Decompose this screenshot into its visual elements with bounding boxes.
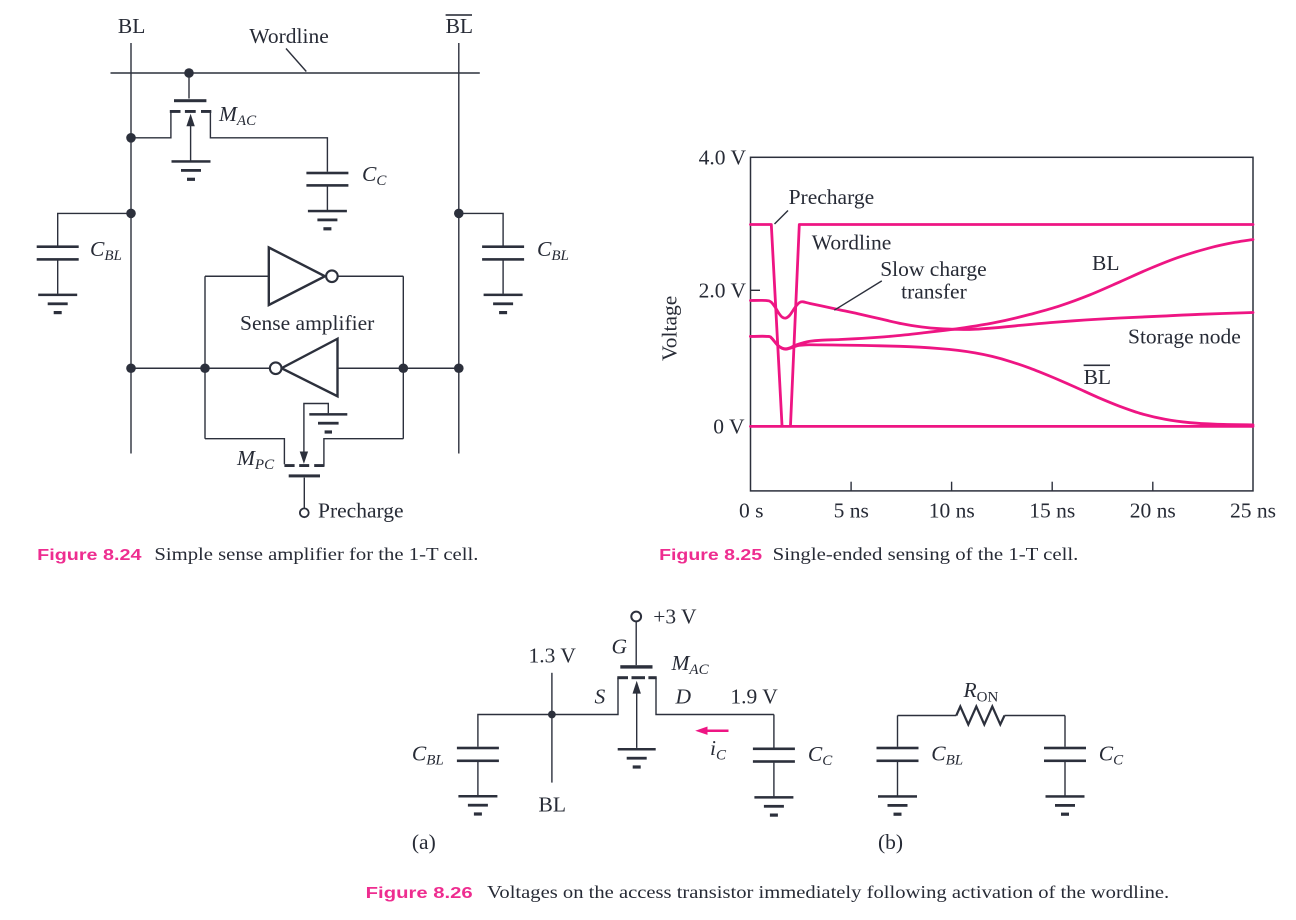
wire drain lead D — [656, 678, 774, 715]
wire bitline BLbar vertical — [458, 43, 460, 454]
wire C_BL lower lead — [897, 762, 899, 796]
curve BLbar — [751, 336, 1254, 425]
svg-text:BL: BL — [1084, 365, 1111, 389]
wire C_BL right lower lead — [502, 261, 504, 294]
svg-text:25 ns: 25 ns — [1230, 499, 1276, 523]
svg-text:Figure 8.26: Figure 8.26 — [366, 885, 473, 902]
svg-text:CC: CC — [362, 162, 387, 189]
svg-text:Slow charge: Slow charge — [880, 257, 986, 281]
wire BL vertical 1.3V — [551, 673, 553, 783]
svg-text:Figure 8.25: Figure 8.25 — [659, 547, 762, 564]
transistor M_AC channel (dashed) — [170, 110, 212, 113]
junction right loop — [399, 363, 409, 373]
wire sense-amp main line right — [338, 367, 459, 369]
wire to C_BL — [478, 715, 552, 747]
terminal Precharge (open circle) — [300, 508, 309, 517]
svg-text:transfer: transfer — [901, 280, 967, 304]
annotation BLbar — [1084, 365, 1111, 390]
svg-text:Precharge: Precharge — [789, 185, 875, 209]
svg-text:(a): (a) — [412, 830, 436, 854]
svg-text:G: G — [612, 635, 628, 659]
wire C_C lower lead — [773, 763, 775, 797]
transistor M_PC body arrow — [300, 404, 329, 464]
ground C_BL — [458, 795, 497, 816]
junction source-BL — [126, 133, 136, 143]
curve Storage node — [751, 300, 1254, 329]
wire right vertical — [1064, 716, 1066, 747]
op-amp inverter U1 (top, right-pointing) — [269, 248, 338, 306]
wire C_C lower lead — [326, 186, 328, 210]
svg-text:MAC: MAC — [671, 651, 710, 678]
wire to right C_BL — [459, 213, 503, 245]
svg-text:10 ns: 10 ns — [929, 499, 975, 523]
capacitor C_BL left — [37, 245, 79, 260]
svg-text:CBL: CBL — [412, 742, 444, 769]
resistor R_ON zigzag — [956, 707, 1004, 725]
svg-text:D: D — [675, 685, 692, 709]
wire to C_C — [773, 715, 775, 748]
svg-text:S: S — [595, 685, 606, 709]
junction BL main — [126, 363, 136, 373]
svg-text:4.0 V: 4.0 V — [699, 146, 747, 170]
transistor M_AC gate bar — [620, 665, 652, 668]
wire wordline label pointer — [286, 49, 306, 72]
current arrow i_C (pink) — [695, 727, 728, 735]
ground substrate — [618, 748, 656, 769]
wire C_BL left lower lead — [57, 261, 59, 294]
annotation Slow charge transfer — [880, 257, 986, 304]
Figure 8.26a: access transistor circuit — [412, 605, 833, 855]
ground C_C — [308, 210, 347, 231]
svg-text:CBL: CBL — [90, 237, 122, 264]
svg-text:CC: CC — [1099, 742, 1124, 769]
wire loop bottom right — [324, 439, 403, 467]
svg-text:Wordline: Wordline — [249, 24, 328, 48]
svg-text:BL: BL — [539, 793, 566, 817]
wire M_AC source lead — [131, 112, 171, 138]
capacitor C_C — [753, 748, 795, 763]
junction BL node — [548, 711, 556, 719]
capacitor C_BL — [457, 747, 499, 762]
curve 0V baseline (precharge/wordline low) — [751, 425, 1254, 428]
ground C_C — [1046, 795, 1085, 816]
svg-text:+3 V: +3 V — [653, 605, 697, 629]
svg-text:5 ns: 5 ns — [834, 499, 869, 523]
wire gate lead — [635, 622, 637, 666]
curve BL — [751, 240, 1254, 349]
curve Precharge — [751, 225, 783, 426]
capacitor C_C — [306, 172, 348, 187]
wire wordline horizontal — [111, 72, 480, 74]
svg-text:iC: iC — [710, 736, 727, 764]
junction BLbar tap — [454, 209, 464, 219]
ground M_AC substrate — [172, 160, 211, 181]
chart plot box — [751, 157, 1254, 491]
ground C_BL — [878, 795, 917, 816]
wire source lead S — [552, 678, 618, 715]
svg-text:Simple sense amplifier for the: Simple sense amplifier for the 1-T cell. — [154, 544, 478, 564]
svg-text:Precharge: Precharge — [318, 499, 404, 523]
svg-text:CC: CC — [808, 742, 833, 769]
Figure 8.24: sense amplifier schematic — [37, 14, 569, 564]
transistor M_PC gate bar — [289, 474, 320, 477]
svg-text:Sense amplifier: Sense amplifier — [240, 311, 374, 335]
x ticks — [851, 482, 1153, 491]
wire M_PC gate lead — [303, 478, 305, 509]
svg-text:(b): (b) — [878, 830, 903, 854]
junction BLbar main — [454, 363, 464, 373]
svg-text:1.9 V: 1.9 V — [730, 685, 778, 709]
wire C_BL lower lead — [477, 762, 479, 795]
capacitor C_BL — [877, 747, 919, 762]
svg-text:2.0 V: 2.0 V — [699, 278, 747, 302]
node BLbar label — [446, 14, 473, 38]
ground M_PC substrate — [309, 413, 347, 434]
curve Wordline — [791, 225, 1254, 426]
transistor M_AC gate bar — [174, 99, 206, 102]
svg-text:BL: BL — [118, 14, 145, 38]
svg-text:0 s: 0 s — [739, 499, 764, 523]
capacitor C_BL right — [482, 245, 524, 260]
svg-text:Wordline: Wordline — [812, 231, 891, 255]
svg-text:1.3 V: 1.3 V — [529, 644, 577, 668]
svg-text:Voltage: Voltage — [658, 296, 682, 361]
transistor M_AC channel (dashed) — [617, 676, 656, 679]
transistor body arrow — [633, 681, 641, 748]
svg-text:BL: BL — [1092, 251, 1119, 275]
ground C_BL right — [484, 294, 523, 315]
wire left to resistor — [898, 715, 957, 717]
wire sense-amp main line left — [131, 367, 269, 369]
terminal +3V (open circle) — [631, 612, 641, 622]
wire gate lead M_AC — [188, 73, 190, 99]
y tick 2.0V — [751, 289, 761, 291]
ground C_C — [754, 796, 793, 817]
wire loop right vertical — [402, 276, 404, 438]
junction BL tap — [126, 209, 136, 219]
wire bitline BL vertical — [130, 43, 132, 454]
wire M_AC drain lead to C_C — [210, 112, 327, 172]
wire loop left vertical — [204, 276, 206, 438]
svg-text:Figure 8.24: Figure 8.24 — [37, 547, 142, 564]
wire left vertical — [897, 716, 899, 747]
transistor M_PC channel (dashed) — [284, 464, 324, 467]
Figure 8.26b: RC equivalent circuit — [877, 678, 1125, 854]
svg-text:CBL: CBL — [931, 742, 963, 769]
svg-text:Voltages on the access transis: Voltages on the access transistor immedi… — [487, 882, 1169, 902]
junction wordline-gate — [184, 68, 194, 78]
junction left loop — [200, 363, 210, 373]
wire to left C_BL — [58, 213, 131, 245]
svg-text:Single-ended sensing of the 1-: Single-ended sensing of the 1-T cell. — [773, 544, 1079, 564]
pointer Precharge — [775, 211, 789, 225]
wire loop top to inverter input — [205, 275, 269, 277]
transistor M_AC body arrow — [186, 114, 194, 161]
svg-text:CBL: CBL — [537, 237, 569, 264]
pointer Slow charge transfer — [834, 281, 882, 310]
svg-text:MPC: MPC — [236, 446, 275, 473]
Figure 8.25: single-ended sensing chart — [658, 146, 1277, 565]
svg-text:BL: BL — [446, 14, 473, 38]
capacitor C_C — [1044, 747, 1086, 762]
wire resistor to right — [1005, 715, 1066, 717]
svg-text:MAC: MAC — [218, 102, 257, 129]
svg-text:20 ns: 20 ns — [1130, 499, 1176, 523]
wire inverter U1 output — [339, 275, 404, 277]
op-amp inverter U2 (bottom, left-pointing) — [270, 339, 338, 397]
svg-text:Storage node: Storage node — [1128, 325, 1241, 349]
svg-text:RON: RON — [963, 678, 999, 706]
svg-text:15 ns: 15 ns — [1029, 499, 1075, 523]
wire C_C lower lead — [1064, 762, 1066, 796]
ground C_BL left — [38, 294, 77, 315]
svg-text:0 V: 0 V — [713, 415, 745, 439]
wire loop bottom left — [205, 439, 284, 465]
